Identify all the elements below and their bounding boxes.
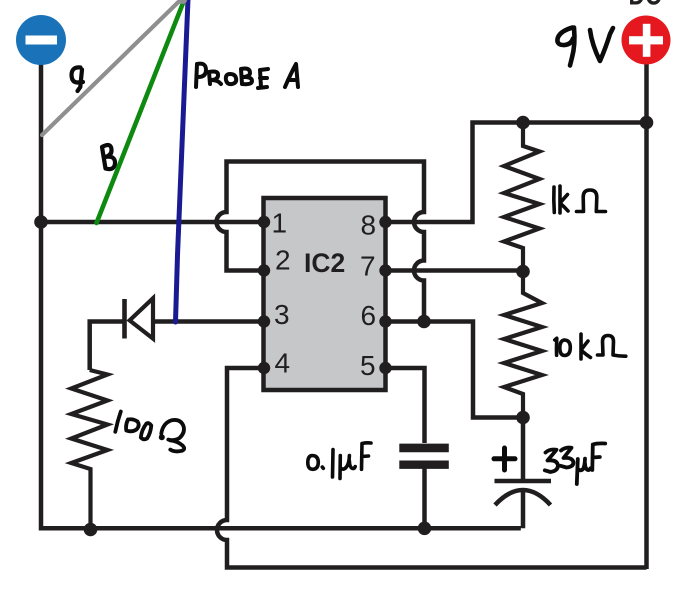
capacitor C2 33uF curved negative plate bbox=[495, 490, 551, 505]
label 33uF handwritten bbox=[545, 443, 605, 484]
wire: left negative rail down and bottom ground bus to 33uF bbox=[41, 63, 523, 528]
wire: 10k bottom junction to 33uF capacitor bbox=[521, 418, 526, 480]
IC2 555 timer body bbox=[264, 198, 386, 390]
capacitor C1 0.1uF bottom plate bbox=[399, 461, 449, 469]
probe tip convergence blob bbox=[179, 0, 187, 4]
pin 4 dot bbox=[258, 362, 270, 374]
wire: pin7 discharge wire bbox=[387, 268, 521, 273]
label 100 ohm handwritten bbox=[115, 412, 184, 452]
pin 2 dot bbox=[258, 264, 270, 276]
battery negative terminal bbox=[16, 15, 66, 65]
wire: pin8 net to Vcc top wire bbox=[387, 123, 647, 223]
junction: 100 ohm and ground bus bbox=[84, 523, 98, 537]
pin 7 dot bbox=[379, 264, 391, 276]
label plus sign for 33uF bbox=[494, 448, 515, 470]
svg-text:4: 4 bbox=[275, 347, 291, 378]
battery positive terminal bbox=[622, 16, 671, 65]
resistor R2 10k ohm zigzag with leads bbox=[504, 273, 542, 416]
svg-text:8: 8 bbox=[361, 209, 377, 240]
svg-text:IC2: IC2 bbox=[304, 248, 345, 278]
pin 6 dot bbox=[379, 315, 391, 327]
label 1k ohm handwritten bbox=[554, 186, 606, 213]
probe lead G gray wire bbox=[42, 0, 183, 135]
capacitor C2 33uF positive plate bbox=[495, 479, 552, 484]
label G handwritten bbox=[72, 67, 84, 91]
diode D1 triangle bbox=[130, 298, 153, 338]
resistor R1 1k ohm zigzag with leads bbox=[504, 124, 540, 270]
svg-text:DC: DC bbox=[629, 0, 662, 12]
pin 8 dot bbox=[379, 216, 391, 228]
wire: pin3 output to diode bbox=[154, 319, 262, 324]
junction: pin2 net joins pin6 wire bbox=[417, 315, 431, 329]
diode D1 cathode bar bbox=[122, 299, 127, 339]
svg-text:1: 1 bbox=[272, 208, 288, 239]
wire: pin2 net over IC top to pin6 column with hops bbox=[217, 162, 425, 322]
svg-text:6: 6 bbox=[361, 300, 377, 331]
label 0.1uF handwritten bbox=[308, 443, 371, 479]
label PROBE A handwritten bbox=[196, 64, 298, 88]
pin 1 dot bbox=[258, 216, 270, 228]
junction: Vcc wire and right rail bbox=[640, 116, 654, 130]
svg-text:3: 3 bbox=[274, 299, 290, 330]
label 9V handwritten bbox=[557, 28, 613, 66]
label B handwritten bbox=[102, 145, 115, 169]
wire: pin4 net to outer bottom and right 9V rail bbox=[217, 63, 647, 569]
svg-text:5: 5 bbox=[360, 350, 376, 381]
wire: diode to 100 ohm resistor lead bbox=[90, 322, 123, 371]
junction: 10k bottom and pin6 net and 33uF bbox=[516, 411, 530, 425]
wire: pin5 to 0.1uF capacitor bbox=[387, 368, 425, 443]
probe lead A navy wire bbox=[176, 0, 189, 322]
pin 3 dot bbox=[258, 315, 270, 327]
svg-text:2: 2 bbox=[275, 244, 291, 275]
resistor R3 100 ohm zigzag bbox=[71, 370, 107, 530]
pin 5 dot bbox=[379, 362, 391, 374]
junction: left rail and pin1 wire bbox=[34, 215, 48, 229]
probe lead B green wire bbox=[97, 0, 186, 223]
capacitor C1 0.1uF top plate bbox=[399, 444, 449, 453]
wire: 0.1uF capacitor to ground bus bbox=[422, 468, 427, 528]
svg-text:7: 7 bbox=[360, 251, 376, 282]
junction: 0.1uF and ground bus bbox=[418, 522, 432, 536]
label 10k ohm handwritten bbox=[555, 334, 626, 359]
wire: pin1 ground wire from left rail to pin 1 bbox=[41, 220, 262, 225]
junction: 1k top and Vcc wire bbox=[516, 116, 530, 130]
junction: 1k and 10k and pin7 bbox=[516, 265, 530, 279]
wire: pin6 threshold net to 10k bottom bbox=[387, 322, 521, 418]
